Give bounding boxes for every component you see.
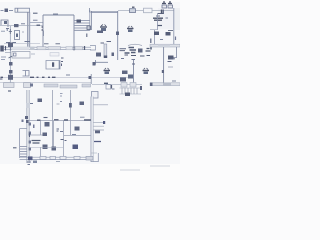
marks x113 y89 (112, 88, 115, 90)
faint text x3 y31 (1, 30, 5, 32)
marks at box top-right (61, 58, 64, 66)
window fill segment 5 (75, 47, 83, 50)
faint bottom-right smudges (120, 166, 170, 170)
chain mark y62 (9, 62, 13, 66)
dim text 360 (56, 43, 61, 45)
main vertical corridor band x91 (90, 97, 92, 163)
big room left wall (42, 15, 44, 47)
tick on wall y71 (162, 70, 164, 73)
door leaf rect a (121, 83, 127, 88)
small mark below (160, 39, 163, 41)
right wing bottom wall band y84 (150, 83, 180, 86)
fixture lower blob central room (97, 31, 103, 34)
sink fixture left of pier (96, 53, 101, 57)
faint rects right of band (50, 53, 59, 57)
chain ticks upper (9, 29, 12, 34)
left dimension chain vertical (9, 26, 11, 83)
tick in lower band (14, 53, 17, 56)
dim text 2.6 top (53, 13, 58, 15)
chain mark y70 (9, 70, 13, 74)
label x57 y130 (57, 129, 60, 131)
fixture right x167 (166, 32, 171, 36)
I mark inside (52, 62, 54, 67)
small closet box x24 (23, 71, 30, 77)
right room light wash (158, 8, 174, 29)
right room small text (156, 15, 160, 17)
window fill segment 1 (12, 47, 30, 50)
right wing top wall band (150, 44, 180, 47)
mark at right edge (175, 37, 177, 41)
dim ticks (14, 24, 19, 27)
wall x40 lower stub (40, 147, 42, 157)
center cluster lower marks (125, 55, 151, 56)
tick x141 y88 (140, 86, 142, 90)
left wall band x28 mid (27, 90, 29, 163)
top stairs risers (75, 21, 90, 31)
fixture x75 y147 (73, 145, 79, 150)
centerline node cluster x10 (8, 75, 13, 80)
faint dash x33 y54 (31, 53, 35, 55)
fixture x44 y147 (43, 145, 48, 150)
chair symbol right room (158, 10, 164, 14)
line y135 left (28, 134, 47, 136)
room label text block left (32, 141, 41, 144)
stove fixture central room (100, 25, 107, 32)
mid wall x52 (52, 90, 54, 150)
dark blob in hatch (125, 93, 130, 97)
fixture x53 y148 (52, 147, 57, 151)
dark seg in band (163, 83, 171, 86)
arrow dash x97 y141 (94, 141, 101, 143)
dim text 2.6 upper (33, 19, 38, 21)
hatch ticks (122, 88, 137, 94)
mark in box (4, 21, 7, 24)
central room right wall (117, 11, 119, 60)
low band line (0, 82, 91, 84)
right room lower mark (157, 25, 162, 27)
central room top wall (91, 11, 118, 12)
low band bar 3 (44, 84, 58, 87)
label mid y135 (72, 134, 76, 136)
dark tick right of small box (111, 85, 113, 89)
bottom window 5 (86, 156, 93, 160)
left low wall band y84 (4, 83, 15, 88)
top-left flag symbol (5, 9, 9, 13)
tick on right wall (116, 32, 119, 36)
text right of wall (168, 59, 176, 62)
fixture x76 y128 (75, 127, 80, 131)
line y147 (28, 147, 63, 149)
inner wall right room (157, 13, 159, 30)
fixture right x155 (154, 32, 159, 36)
top-right rect b (168, 5, 173, 8)
wall tick marks x43 (42, 27, 44, 30)
band tick x84 (84, 46, 86, 50)
fixture x81 y103 (80, 102, 85, 106)
small rect left center (90, 46, 96, 51)
mid-right stairs x93-104 (94, 122, 105, 130)
wall x28 side ticks (29, 123, 31, 126)
center cluster arcs (128, 44, 142, 45)
wc fixture x47 (45, 122, 50, 127)
tick on x133 wall (132, 63, 135, 65)
central room left wall (91, 11, 93, 30)
dark dash x106 y83 (104, 82, 108, 84)
mark x45 y117 (44, 117, 48, 119)
low band bar 4 (60, 85, 77, 88)
big room right wall (73, 15, 75, 47)
wall x133 vertical (133, 60, 135, 85)
band left dark tick (150, 83, 153, 87)
table symbol on top wall (130, 9, 136, 13)
closet top right (170, 47, 177, 58)
text 1.0 above (168, 30, 173, 32)
dim mark x86 (86, 34, 88, 38)
right wing band dark seg (158, 44, 170, 47)
text 1.0 y81 (172, 80, 176, 82)
window fill segment 1b (30, 47, 35, 50)
notch step (91, 152, 97, 154)
below-band mark x57 (56, 161, 60, 163)
wall x91 lower (90, 74, 92, 84)
mark x58 y104 (57, 103, 60, 105)
dim text near x105 (101, 42, 112, 44)
mid wall x70 (69, 90, 71, 135)
small mark x9 y91 (8, 90, 11, 92)
wall tick x150 y40 (150, 39, 152, 44)
mark inside door box (16, 34, 18, 38)
faint text x169 y67 (168, 66, 173, 68)
far right wall (173, 8, 175, 45)
narrow wall pier center (104, 44, 107, 57)
dim text 140 (33, 12, 38, 14)
corridor wall L-shape top (96, 60, 109, 65)
centerline dash-dot y77 (0, 76, 133, 78)
mark x31 y84 (30, 84, 33, 87)
mark right of label (166, 17, 169, 19)
passage lines (30, 22, 44, 24)
window fill segment 2 (37, 47, 46, 50)
small box x108 (106, 85, 111, 90)
wall band tick (17, 8, 19, 12)
blob on x70 wall (69, 103, 72, 108)
bottom window 1 (40, 156, 46, 159)
center cluster text dashes (125, 48, 137, 54)
vertical stub above room (43, 31, 45, 37)
tick x61 y131 (60, 131, 63, 133)
node at corridor corner (93, 62, 96, 66)
bottom band dark pier (28, 156, 33, 160)
pier dark foot (104, 56, 107, 59)
lower band rectangle left (12, 52, 30, 59)
window fill segment 3 (48, 47, 61, 50)
second band line (5, 52, 11, 54)
stairwell rails (20, 129, 27, 159)
center text cluster row1 (120, 49, 127, 51)
right room top wall (118, 10, 174, 12)
top stairs right rail (89, 10, 91, 31)
band tick x74 (73, 46, 75, 51)
inner wall continues (154, 30, 156, 44)
bottom window 4 (74, 156, 80, 159)
gray box x94 y95 (92, 92, 99, 99)
right room label text block (153, 18, 163, 20)
light rect on top wall (144, 8, 153, 13)
top-right rect a (162, 5, 167, 8)
bottom-left rooms: top wall y120 (28, 119, 91, 121)
center cluster right marks (150, 45, 152, 50)
right room vertical wall (163, 47, 165, 84)
cluster x122 y79 (120, 78, 126, 82)
hatched band below doors (120, 88, 142, 94)
faint marks right of door box (22, 31, 24, 33)
top-left wall band (15, 8, 30, 12)
wall x40 (40, 121, 42, 135)
left wall vertical band x28 (27, 12, 29, 47)
top stairs dark blob (77, 20, 82, 23)
chain mark y42 (8, 43, 13, 48)
top-left text marks (1, 10, 14, 12)
mark left edge y77 (0, 78, 3, 80)
dark segs on y120 (37, 119, 91, 121)
mark below center (121, 59, 135, 60)
fixture x39 y100 (38, 99, 43, 103)
small mark right of pier (112, 53, 115, 57)
mark top of rail (26, 120, 29, 123)
dim faint line y43 (4, 43, 40, 45)
low band bar 5 (82, 84, 91, 87)
right margin shading (174, 8, 180, 30)
left-wall fixture central room (87, 26, 91, 30)
dim line y25 (0, 24, 44, 26)
bottom wall band (20, 157, 93, 159)
legend box right edge dark (58, 61, 60, 70)
mark x22 y120 (22, 120, 24, 123)
dim text 3.10 (21, 23, 25, 25)
marks x62 y140 (61, 140, 67, 141)
main window band wall A (4, 47, 91, 49)
chain tick y57 (9, 56, 13, 58)
fixture x130 room2 (127, 26, 134, 32)
legend box with I (46, 61, 60, 70)
dimension text row y42 left (6, 42, 30, 43)
tick at stairs right (103, 121, 105, 124)
window fill segment 4 (66, 47, 73, 50)
mark x31 y103 (30, 103, 33, 105)
fixture x125 (122, 71, 128, 75)
blob at stairs bottom (95, 131, 100, 134)
bottom-left small text y56 (1, 57, 6, 60)
horizontal line y104 (94, 104, 109, 106)
top-right glyph a (162, 2, 166, 4)
chair dark back (161, 10, 163, 14)
big room left: top wall (43, 14, 74, 16)
band tick x5 (6, 46, 11, 51)
fixture x145 (143, 68, 150, 74)
table dark top mark (132, 6, 135, 8)
faint sill line y29 (150, 29, 158, 31)
stair treads (20, 147, 27, 157)
left end window symbol (0, 46, 4, 52)
wall x63 (63, 120, 65, 157)
below-band marks (27, 162, 31, 165)
mark below box (6, 29, 9, 32)
door leaf rect b (130, 83, 136, 88)
central room left jog (90, 8, 92, 12)
bottom window 2 (50, 156, 56, 159)
dim text x82 y117 (80, 116, 85, 118)
line y135 right (64, 135, 91, 137)
mid horizontal line y84 (92, 84, 142, 86)
gray blob on x28 wall (26, 103, 30, 108)
blob x140 y50 (138, 49, 143, 53)
wall x53 (52, 121, 54, 150)
closet fixture (168, 56, 174, 60)
fixtures center row: wc x106 (104, 68, 111, 74)
cluster x130 y76 (128, 75, 133, 79)
dim text 2.6 center (44, 43, 49, 45)
bottom window 3 (60, 156, 66, 159)
mark on x91 wall (89, 76, 92, 79)
marks x61 y94 (60, 94, 63, 97)
tick left of stairs (13, 147, 17, 149)
mark x61 y101 (60, 101, 62, 103)
below-band mark x35 (33, 161, 37, 164)
cluster x44 y134 (43, 133, 48, 137)
paper background (0, 0, 180, 180)
label 1 (33, 125, 35, 129)
low band gap box (24, 83, 31, 88)
label 2.0 above line (66, 74, 70, 76)
bottom-right notch (91, 153, 99, 162)
dark mark x26 y117 (25, 116, 28, 119)
small box lower-left (1, 20, 8, 27)
tick x29 y135 (29, 133, 31, 137)
door box x17 y35 (15, 31, 20, 40)
top-right glyph b (168, 2, 172, 4)
centerline dark dashes (1, 76, 92, 78)
